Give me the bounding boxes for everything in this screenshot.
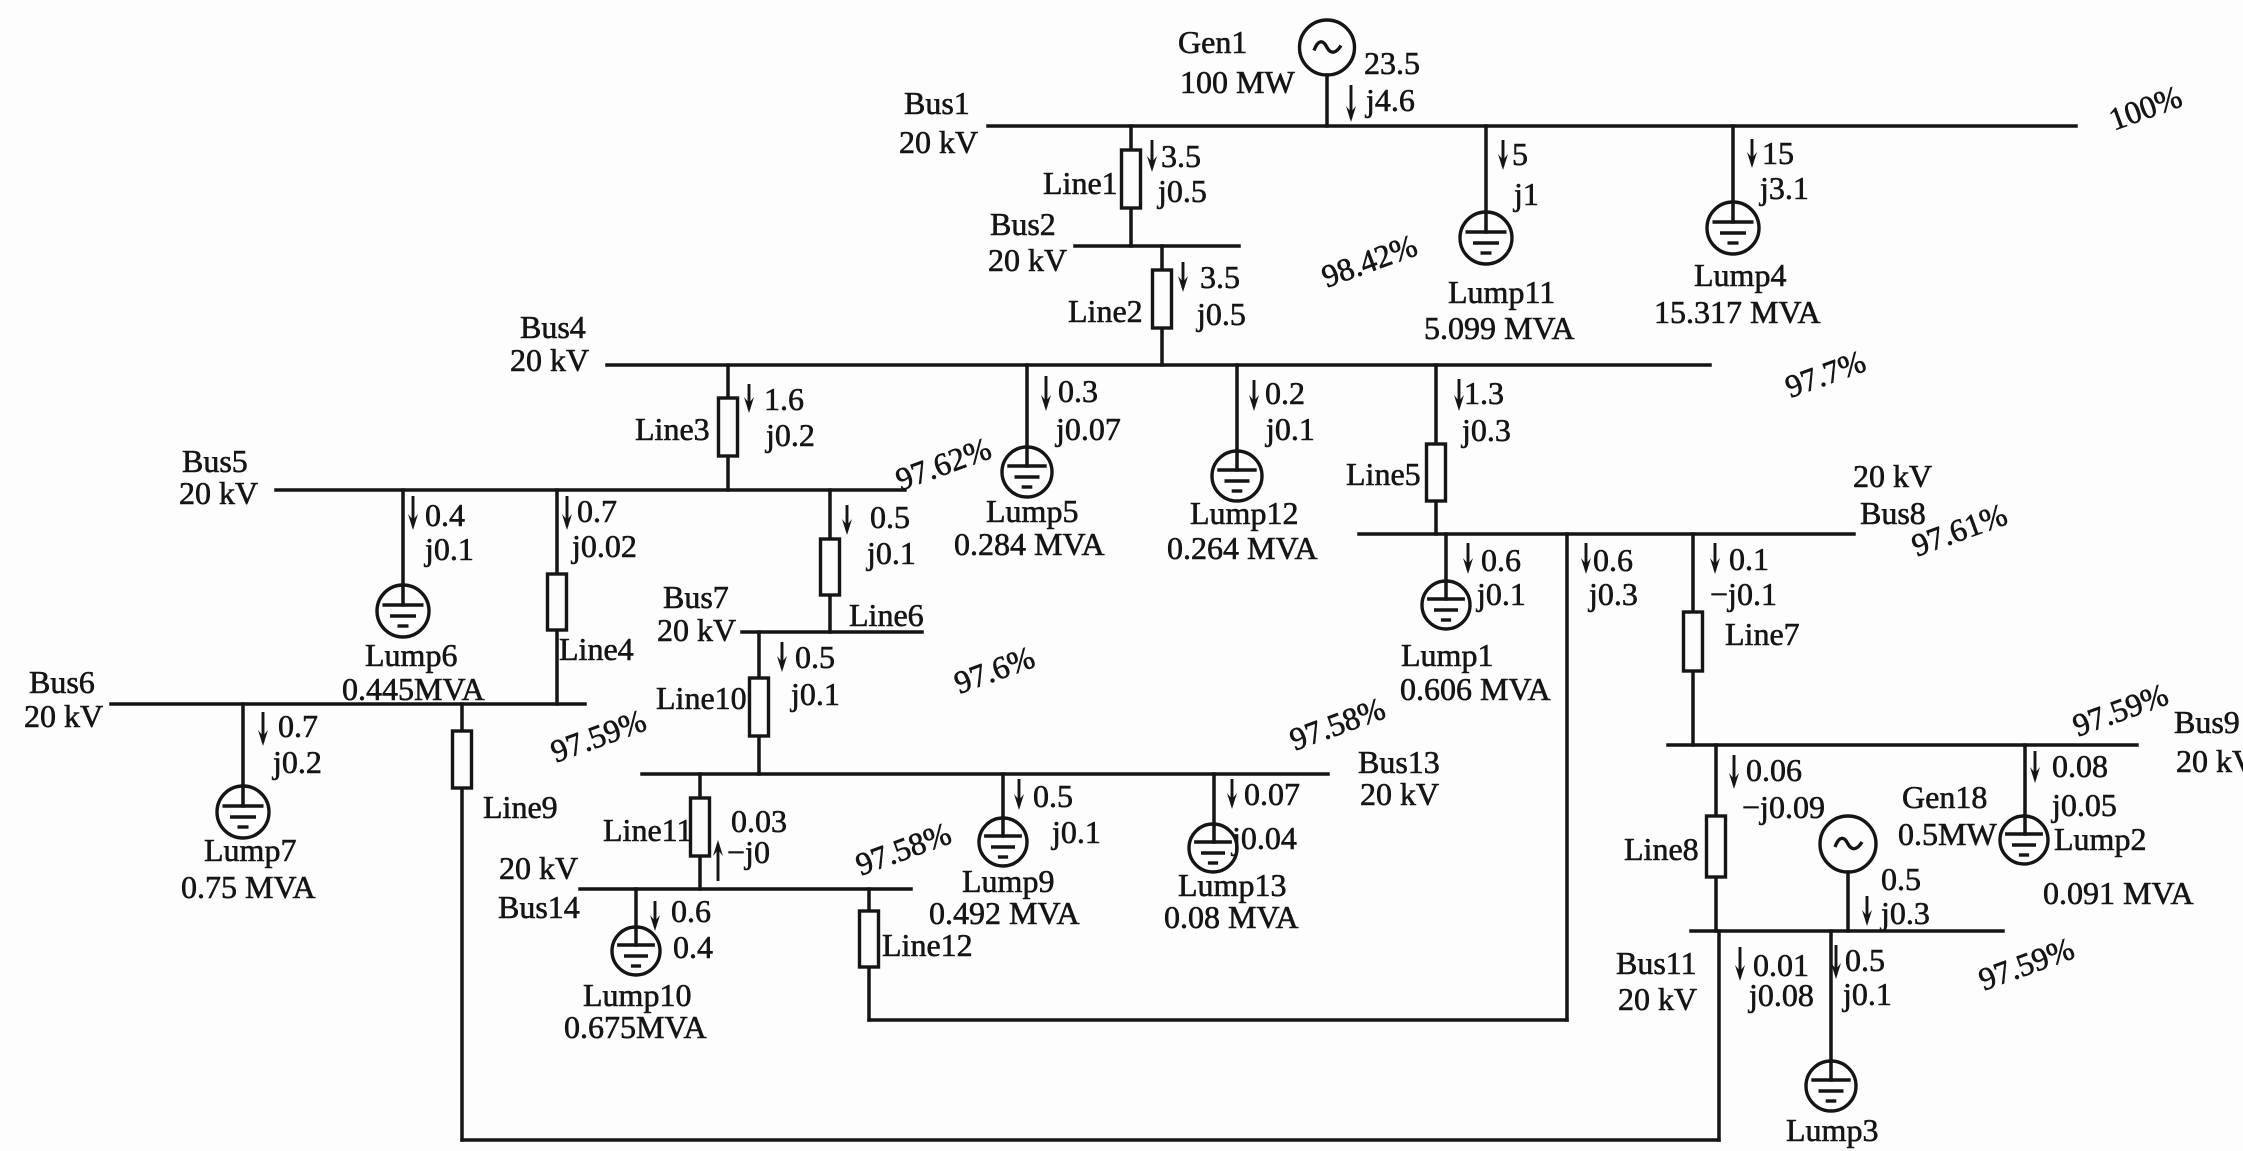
svg-text:j0.07: j0.07: [1055, 411, 1121, 447]
svg-text:Line6: Line6: [849, 597, 924, 633]
svg-text:j0.1: j0.1: [1476, 576, 1526, 612]
svg-text:0.675MVA: 0.675MVA: [564, 1009, 707, 1045]
svg-text:j0.1: j0.1: [424, 531, 474, 567]
svg-text:Line2: Line2: [1068, 293, 1143, 329]
svg-text:Bus13: Bus13: [1358, 744, 1440, 780]
svg-text:0.5: 0.5: [870, 499, 910, 535]
svg-text:Lump5: Lump5: [986, 493, 1078, 529]
svg-text:Line7: Line7: [1725, 616, 1800, 652]
svg-text:15: 15: [1762, 135, 1794, 171]
svg-text:3.5: 3.5: [1200, 259, 1240, 295]
svg-text:−j0.09: −j0.09: [1742, 789, 1825, 825]
svg-text:0.7: 0.7: [577, 493, 617, 529]
svg-text:j0.5: j0.5: [1196, 296, 1246, 332]
svg-text:20 kV: 20 kV: [499, 850, 578, 886]
svg-text:0.7: 0.7: [278, 708, 318, 744]
svg-text:20 kV: 20 kV: [1618, 981, 1697, 1017]
svg-text:Gen1: Gen1: [1178, 24, 1247, 60]
svg-text:3.5: 3.5: [1161, 138, 1201, 174]
svg-text:Lump3: Lump3: [1786, 1112, 1878, 1148]
svg-text:0.2: 0.2: [1265, 375, 1305, 411]
svg-text:Line8: Line8: [1624, 831, 1699, 867]
svg-text:j0.04: j0.04: [1231, 820, 1297, 856]
svg-text:Bus9: Bus9: [2174, 704, 2240, 740]
svg-text:0.284 MVA: 0.284 MVA: [954, 526, 1105, 562]
svg-text:15.317 MVA: 15.317 MVA: [1654, 294, 1821, 330]
svg-text:Line3: Line3: [635, 411, 710, 447]
svg-text:Lump6: Lump6: [365, 637, 457, 673]
svg-text:Lump13: Lump13: [1178, 867, 1286, 903]
svg-text:Line10: Line10: [656, 680, 747, 716]
svg-text:Lump11: Lump11: [1448, 274, 1555, 310]
svg-text:0.492 MVA: 0.492 MVA: [929, 895, 1080, 931]
svg-text:Lump4: Lump4: [1694, 257, 1786, 293]
svg-text:20 kV: 20 kV: [657, 612, 736, 648]
svg-text:0.445MVA: 0.445MVA: [342, 671, 485, 707]
svg-text:j0.2: j0.2: [272, 744, 322, 780]
svg-text:0.5: 0.5: [1033, 778, 1073, 814]
svg-text:0.06: 0.06: [1746, 752, 1802, 788]
svg-text:j3.1: j3.1: [1759, 170, 1809, 206]
svg-text:20 kV: 20 kV: [2176, 743, 2243, 779]
svg-text:j4.6: j4.6: [1365, 82, 1415, 118]
svg-text:0.5: 0.5: [1845, 942, 1885, 978]
svg-text:0.08 MVA: 0.08 MVA: [1164, 899, 1299, 935]
svg-text:Line5: Line5: [1346, 456, 1421, 492]
svg-text:Lump1: Lump1: [1401, 637, 1493, 673]
svg-text:−j0.1: −j0.1: [1710, 576, 1777, 612]
svg-text:j0.3: j0.3: [1461, 412, 1511, 448]
svg-text:Bus4: Bus4: [520, 309, 586, 345]
svg-text:0.07: 0.07: [1244, 776, 1300, 812]
svg-text:0.75 MVA: 0.75 MVA: [181, 869, 316, 905]
svg-text:Bus1: Bus1: [904, 85, 970, 121]
svg-text:20 kV: 20 kV: [24, 698, 103, 734]
svg-text:0.264 MVA: 0.264 MVA: [1167, 530, 1318, 566]
svg-text:j0.05: j0.05: [2051, 787, 2117, 823]
svg-text:j0.1: j0.1: [1842, 976, 1892, 1012]
svg-text:Lump9: Lump9: [962, 863, 1054, 899]
svg-text:Bus14: Bus14: [498, 889, 580, 925]
svg-text:Bus2: Bus2: [990, 206, 1056, 242]
svg-text:j0.02: j0.02: [571, 528, 637, 564]
svg-text:j0.1: j0.1: [1051, 814, 1101, 850]
svg-text:Gen18: Gen18: [1902, 779, 1987, 815]
svg-text:j0.1: j0.1: [790, 676, 840, 712]
svg-text:j0.3: j0.3: [1588, 576, 1638, 612]
svg-text:0.4: 0.4: [673, 929, 713, 965]
svg-text:Bus5: Bus5: [182, 443, 248, 479]
svg-text:Lump10: Lump10: [583, 977, 691, 1013]
svg-text:0.4: 0.4: [425, 497, 465, 533]
svg-text:0.08: 0.08: [2052, 748, 2108, 784]
svg-text:1.6: 1.6: [764, 381, 804, 417]
svg-text:j0.1: j0.1: [866, 535, 916, 571]
svg-text:20 kV: 20 kV: [899, 124, 978, 160]
svg-text:Line4: Line4: [559, 631, 634, 667]
svg-text:Line1: Line1: [1043, 165, 1118, 201]
svg-text:0.5MW: 0.5MW: [1898, 816, 1997, 852]
svg-text:Bus11: Bus11: [1616, 945, 1697, 981]
svg-text:Lump7: Lump7: [204, 832, 296, 868]
svg-text:0.5: 0.5: [795, 639, 835, 675]
svg-text:Line9: Line9: [483, 789, 558, 825]
svg-text:23.5: 23.5: [1364, 45, 1420, 81]
svg-text:0.6: 0.6: [671, 893, 711, 929]
svg-text:100 MW: 100 MW: [1180, 64, 1295, 100]
svg-text:j0.5: j0.5: [1157, 173, 1207, 209]
svg-text:20 kV: 20 kV: [1853, 458, 1932, 494]
svg-text:5: 5: [1512, 136, 1528, 172]
svg-text:0.606 MVA: 0.606 MVA: [1400, 671, 1551, 707]
svg-text:j1: j1: [1513, 176, 1539, 212]
svg-text:j0.2: j0.2: [765, 417, 815, 453]
svg-text:Line12: Line12: [882, 927, 973, 963]
svg-text:20 kV: 20 kV: [510, 342, 589, 378]
svg-text:0.091 MVA: 0.091 MVA: [2043, 875, 2194, 911]
svg-text:1.3: 1.3: [1464, 375, 1504, 411]
svg-text:0.6: 0.6: [1481, 542, 1521, 578]
svg-text:20 kV: 20 kV: [1360, 776, 1439, 812]
svg-text:20 kV: 20 kV: [179, 475, 258, 511]
svg-text:Lump12: Lump12: [1190, 495, 1298, 531]
svg-text:Line11: Line11: [603, 812, 692, 848]
svg-text:j0.3: j0.3: [1880, 895, 1930, 931]
svg-text:20 kV: 20 kV: [988, 242, 1067, 278]
svg-text:Lump2: Lump2: [2054, 821, 2146, 857]
svg-text:Bus6: Bus6: [29, 664, 95, 700]
svg-text:j0.1: j0.1: [1265, 411, 1315, 447]
svg-text:Bus7: Bus7: [663, 579, 729, 615]
svg-text:−j0: −j0: [727, 834, 770, 870]
svg-text:0.6: 0.6: [1593, 542, 1633, 578]
svg-text:j0.08: j0.08: [1748, 977, 1814, 1013]
svg-text:0.5: 0.5: [1881, 861, 1921, 897]
svg-text:5.099 MVA: 5.099 MVA: [1424, 310, 1575, 346]
svg-text:0.1: 0.1: [1729, 541, 1769, 577]
svg-text:0.3: 0.3: [1058, 373, 1098, 409]
